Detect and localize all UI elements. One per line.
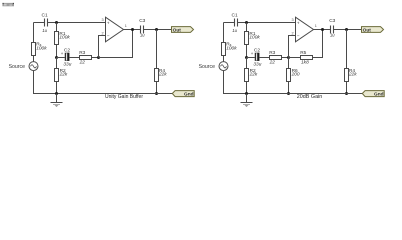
capacitor C3 1u (right) [329, 18, 335, 38]
svg-text:33u: 33u [253, 61, 261, 67]
svg-text:1u: 1u [42, 28, 47, 33]
resistor R5 1k8 feedback (right) [289, 50, 313, 65]
node: C1 / R1 junction (right) [245, 21, 248, 24]
svg-text:Source: Source [9, 64, 26, 70]
voltage source "Source" (right) [199, 62, 228, 71]
svg-text:1u: 1u [330, 33, 335, 38]
resistor R4 22k (right) [345, 30, 358, 94]
svg-text:22: 22 [269, 60, 276, 66]
svg-text:C1: C1 [232, 13, 238, 19]
svg-text:1u: 1u [232, 28, 237, 33]
svg-text:20dB Gain: 20dB Gain [297, 94, 323, 100]
wire: ground rail (right) [234, 93, 362, 95]
wire: C3 to Out tag (right) [334, 29, 362, 31]
wire: R5 to output (right) [313, 30, 323, 58]
net tag Out (right) [362, 27, 384, 34]
resistor R2 22k (right) [245, 58, 258, 94]
wire: input column top (right) [223, 23, 225, 43]
wire: feedback (output to inverting node) (left) [99, 30, 133, 58]
svg-text:Out: Out [173, 27, 182, 33]
node: R4 tap on output (right) [345, 28, 348, 31]
resistor R4 22k (left) [155, 30, 168, 94]
wire: source to ground rail (left) [34, 70, 45, 93]
net tag Gnd (right) [362, 91, 384, 98]
node: R6 to ground rail (right) [287, 92, 290, 95]
svg-text:R3: R3 [79, 50, 85, 56]
node: R1 / C2 / R2 junction (left) [55, 56, 58, 59]
wire: R3 to inverting node (right) [282, 57, 289, 59]
capacitor C2 33u polarized (right) [247, 47, 262, 67]
capacitor C3 1u (left) [139, 18, 145, 38]
node: ground symbol junction (right) [245, 92, 248, 95]
wire: top rail left of C1 (right) [224, 22, 235, 24]
svg-text:2: 2 [101, 32, 103, 36]
svg-text:3: 3 [101, 18, 103, 22]
node: ground symbol junction (left) [55, 92, 58, 95]
svg-text:C3: C3 [139, 18, 145, 24]
svg-text:22k: 22k [158, 72, 167, 78]
wire: Rs to source (left) [33, 56, 35, 62]
svg-text:R5: R5 [300, 50, 306, 56]
wire: C2 to R3 (left) [69, 57, 80, 59]
wire: op-amp output to C3 (right) [314, 29, 331, 31]
svg-text:200: 200 [291, 72, 300, 78]
resistor R3 22 (left) [79, 50, 92, 65]
svg-text:3: 3 [291, 18, 293, 22]
svg-text:Gnd: Gnd [374, 91, 384, 97]
resistor R6 200 (right) [287, 58, 300, 94]
svg-text:Gnd: Gnd [184, 91, 194, 97]
node: R4 to ground rail (right) [345, 92, 348, 95]
node: feedback tap on output (left) [131, 28, 134, 31]
wire: top rail C1 to op-amp + input (left) [48, 22, 106, 24]
svg-text:100k: 100k [226, 45, 237, 51]
svg-text:22k: 22k [59, 72, 68, 78]
svg-text:1u: 1u [140, 33, 145, 38]
svg-text:33u: 33u [63, 61, 71, 67]
svg-text:R3: R3 [269, 50, 275, 56]
node: inverting input junction (right) [287, 56, 290, 59]
svg-text:Out: Out [363, 27, 372, 33]
svg-text:100k: 100k [59, 35, 70, 41]
ground symbol (right) [241, 94, 253, 107]
svg-text:1k8: 1k8 [301, 60, 309, 66]
svg-text:C3: C3 [329, 18, 335, 24]
svg-text:1: 1 [125, 24, 127, 28]
wire: top rail left of C1 (left) [34, 22, 45, 24]
svg-text:1: 1 [315, 24, 317, 28]
watermark logo [2, 3, 14, 6]
svg-text:C1: C1 [42, 13, 48, 19]
net tag Gnd (left) [172, 91, 194, 98]
svg-text:100k: 100k [36, 45, 47, 51]
wire: R3 to inverting node (left) [92, 57, 99, 59]
resistor R2 22k (left) [55, 58, 68, 94]
node: inverting input junction (left) [97, 56, 100, 59]
resistor R1 100k (right) [245, 23, 261, 58]
wire: ground rail (left) [44, 93, 172, 95]
svg-text:22: 22 [79, 60, 86, 66]
wire: op-amp output to C3 (left) [124, 29, 141, 31]
resistor Rs 100k (left) [32, 42, 48, 56]
svg-text:−: − [107, 33, 110, 38]
svg-text:100k: 100k [249, 35, 260, 41]
svg-text:22k: 22k [249, 72, 258, 78]
node: feedback tap on output (right) [321, 28, 324, 31]
svg-text:+: + [297, 20, 300, 25]
op-amp (left) [101, 17, 126, 42]
capacitor C2 33u polarized (left) [57, 47, 72, 67]
svg-text:C2: C2 [64, 47, 70, 53]
resistor Rs 100k (right) [222, 42, 238, 56]
op-amp (right) [291, 17, 316, 42]
svg-text:Unity Gain Buffer: Unity Gain Buffer [105, 94, 143, 100]
wire: top rail C1 to op-amp + input (right) [238, 22, 296, 24]
wire: C2 to R3 (right) [259, 57, 270, 59]
svg-text:+: + [107, 20, 110, 25]
wire: inverting node up to op-amp - input (left) [99, 36, 106, 58]
resistor R1 100k (left) [55, 23, 71, 58]
node: C1 / R1 junction (left) [55, 21, 58, 24]
wire: C3 to Out tag (left) [144, 29, 172, 31]
wire: input column top (left) [33, 23, 35, 43]
capacitor C1 1u (right) [232, 13, 238, 33]
voltage source "Source" (left) [9, 62, 38, 71]
resistor R3 22 (right) [269, 50, 282, 65]
ground symbol (left) [51, 94, 63, 107]
wire: source to ground rail (right) [224, 70, 235, 93]
svg-text:Source: Source [199, 64, 216, 70]
svg-text:−: − [297, 33, 300, 38]
node: R1 / C2 / R2 junction (right) [245, 56, 248, 59]
svg-text:22k: 22k [348, 72, 357, 78]
wire: inverting node up to op-amp - input (right) [289, 36, 296, 58]
wire: Rs to source (right) [223, 56, 225, 62]
node: R4 tap on output (left) [155, 28, 158, 31]
node: R4 to ground rail (left) [155, 92, 158, 95]
svg-text:C2: C2 [254, 47, 260, 53]
net tag Out (left) [172, 27, 194, 34]
capacitor C1 1u (left) [42, 13, 48, 33]
svg-text:2: 2 [291, 32, 293, 36]
